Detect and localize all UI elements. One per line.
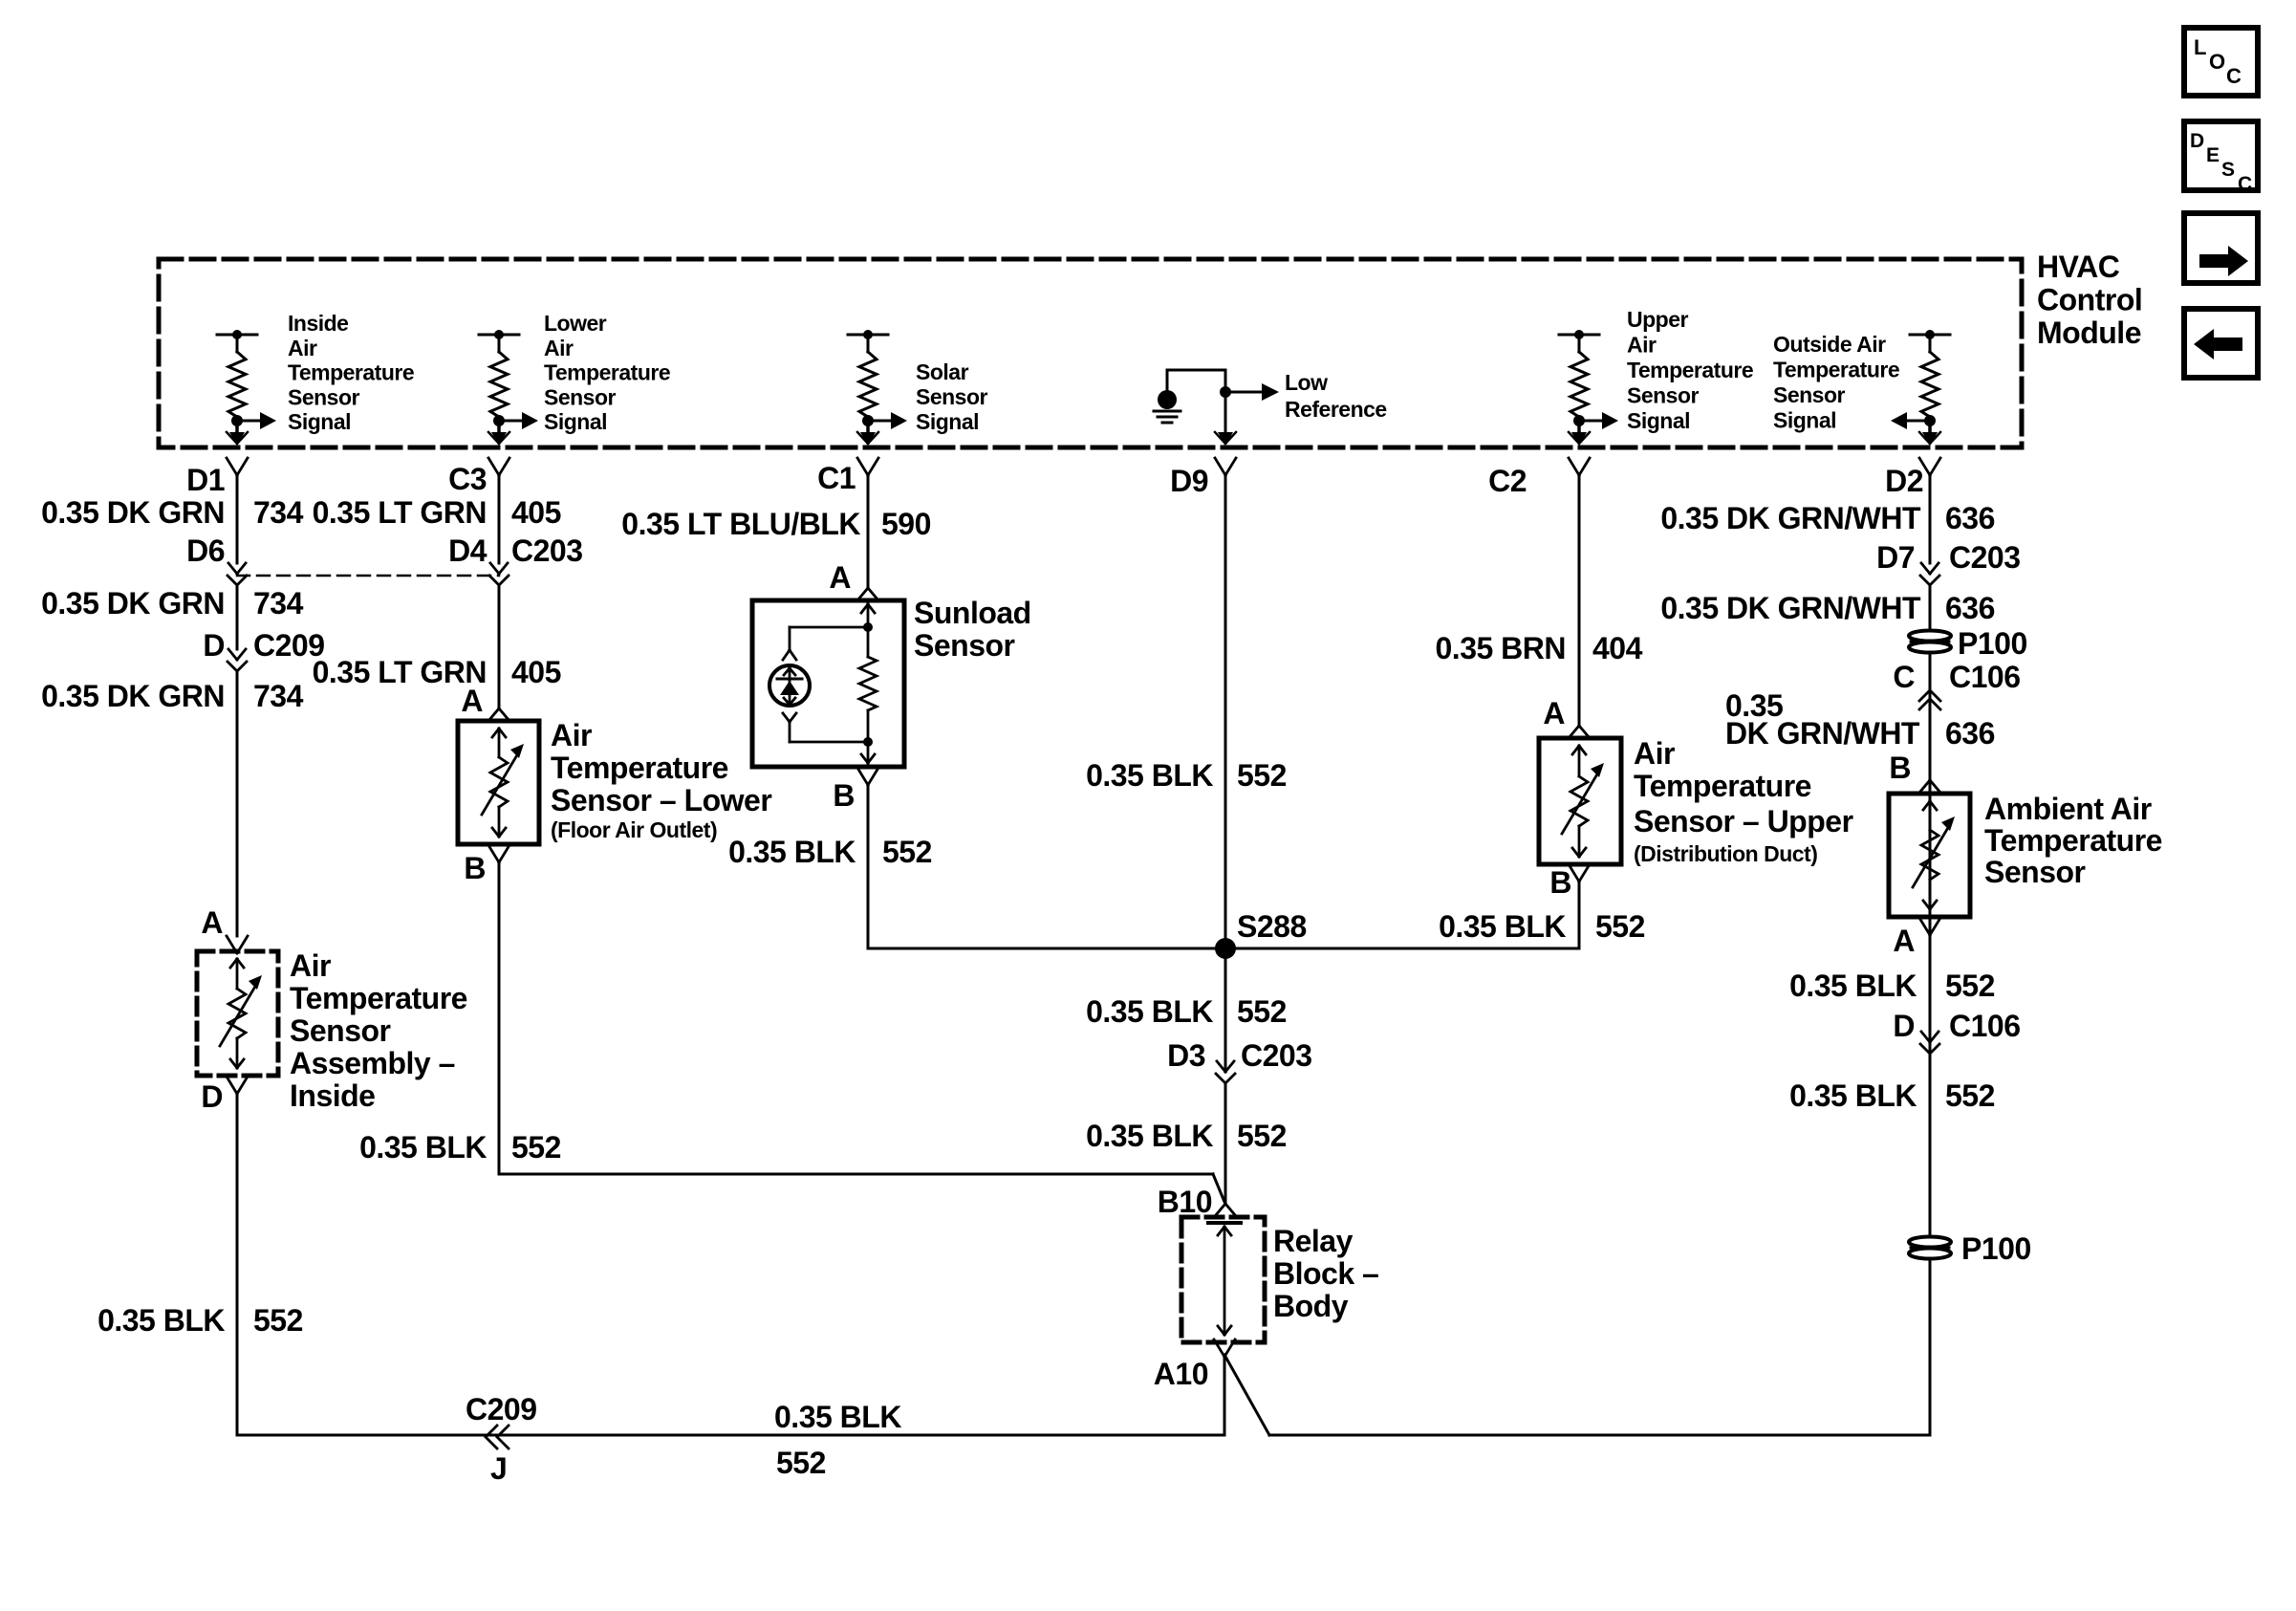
label C209 (bottom wire) bbox=[466, 1392, 537, 1426]
label 0.35 LT GRN 405 (row1 W2) bbox=[313, 495, 561, 530]
pin connector chevron D9 bbox=[1215, 458, 1236, 475]
svg-text:A: A bbox=[461, 684, 483, 718]
svg-text:Inside: Inside bbox=[290, 1078, 375, 1113]
svg-text:C3: C3 bbox=[448, 462, 487, 496]
svg-text:S: S bbox=[2221, 159, 2235, 181]
svg-text:0.35 DK GRN/WHT: 0.35 DK GRN/WHT bbox=[1660, 591, 1921, 625]
dashed connector line C203 between W1 and W2 bbox=[237, 575, 499, 577]
svg-text:D1: D1 bbox=[186, 463, 225, 497]
svg-text:Low: Low bbox=[1285, 370, 1328, 395]
label low reference bbox=[1285, 370, 1387, 422]
svg-text:Block –: Block – bbox=[1273, 1256, 1378, 1291]
svg-text:Signal: Signal bbox=[1773, 408, 1836, 433]
svg-text:Signal: Signal bbox=[1627, 408, 1690, 433]
label D4 C203 bbox=[448, 533, 582, 568]
relay block internal terminal bbox=[1208, 1223, 1241, 1335]
wire S288 horizontal left part bbox=[868, 947, 1225, 950]
label 0.35 BLK 552 (W1 bottom) bbox=[97, 1303, 303, 1338]
wire W1 seg1 bbox=[236, 475, 239, 563]
svg-text:Sunload: Sunload bbox=[914, 596, 1031, 630]
air temperature sensor - upper box bbox=[1539, 738, 1621, 864]
wire W2 horizontal to relay block bbox=[499, 1174, 1224, 1202]
svg-text:0.35 LT BLU/BLK: 0.35 LT BLU/BLK bbox=[621, 507, 860, 541]
thermistor inside assembly box bbox=[220, 959, 262, 1068]
label 0.35 DK GRN 734 (row2 W1) bbox=[41, 586, 303, 620]
svg-text:S288: S288 bbox=[1237, 909, 1307, 944]
label P100 lower bbox=[1961, 1231, 2031, 1266]
air temperature sensor assembly - inside dashed box bbox=[197, 951, 278, 1076]
svg-text:552: 552 bbox=[1237, 758, 1287, 793]
sunload photodiode circle bbox=[769, 665, 810, 706]
wire W1 seg2 bbox=[236, 586, 239, 649]
label D C106 bbox=[1893, 1009, 2020, 1043]
connector chevron below relay block A10 bbox=[1214, 1339, 1235, 1357]
label 0.35 BLK 552 (W4 above S288) bbox=[1086, 758, 1287, 793]
label 0.35 LT GRN 405 (row2 W2) bbox=[313, 655, 561, 689]
relay block - body dashed box bbox=[1181, 1217, 1265, 1342]
svg-text:Reference: Reference bbox=[1285, 397, 1387, 422]
svg-text:B10: B10 bbox=[1158, 1185, 1212, 1219]
svg-text:A: A bbox=[1543, 696, 1565, 730]
svg-text:Sensor: Sensor bbox=[544, 384, 617, 409]
label 0.35 BLK 552 (W6 lower) bbox=[1789, 1078, 1995, 1113]
svg-text:Air: Air bbox=[1634, 736, 1675, 771]
svg-text:C203: C203 bbox=[1241, 1038, 1312, 1073]
svg-text:B: B bbox=[1549, 865, 1571, 900]
grommet P100 upper bbox=[1909, 631, 1951, 653]
svg-text:DK GRN/WHT: DK GRN/WHT bbox=[1725, 716, 1920, 751]
svg-text:Air: Air bbox=[551, 718, 592, 752]
connector C106 pass-through on W6 bbox=[1920, 1032, 1939, 1054]
svg-text:0.35 BLK: 0.35 BLK bbox=[359, 1130, 487, 1165]
svg-text:Sensor – Upper: Sensor – Upper bbox=[1634, 804, 1853, 838]
svg-text:0.35 BLK: 0.35 BLK bbox=[1439, 909, 1566, 944]
label 0.35 BLK 552 (W5) bbox=[1439, 909, 1645, 944]
svg-text:0.35 LT GRN: 0.35 LT GRN bbox=[313, 495, 487, 530]
connector C203 pass-through on W6 bbox=[1920, 563, 1939, 585]
svg-text:552: 552 bbox=[1237, 1119, 1287, 1153]
label 0.35 BLK 552 (W2) bbox=[359, 1130, 561, 1165]
low reference arrow bbox=[1225, 383, 1279, 401]
label D (assembly pin D) bbox=[201, 1079, 223, 1114]
svg-text:Temperature: Temperature bbox=[544, 360, 670, 385]
svg-text:J: J bbox=[490, 1451, 507, 1486]
pin label C1 bbox=[817, 461, 856, 495]
sunload photodiode branch bottom bbox=[783, 713, 868, 742]
pin connector chevron C1 bbox=[857, 458, 878, 475]
svg-text:Ambient Air: Ambient Air bbox=[1984, 792, 2152, 826]
label ambient air temperature sensor bbox=[1984, 792, 2162, 889]
svg-text:552: 552 bbox=[1237, 994, 1287, 1029]
connector chevron into upper sensor bbox=[1569, 726, 1590, 738]
svg-text:B: B bbox=[833, 778, 855, 813]
pin label D2 bbox=[1885, 464, 1923, 498]
svg-text:C106: C106 bbox=[1949, 1009, 2021, 1043]
svg-text:P100: P100 bbox=[1961, 1231, 2031, 1266]
wire W6 seg1 bbox=[1929, 475, 1932, 563]
wire W5 seg2 down bbox=[1578, 881, 1581, 948]
pin connector chevron D2 bbox=[1919, 458, 1940, 475]
svg-text:Signal: Signal bbox=[288, 409, 351, 434]
svg-text:552: 552 bbox=[253, 1303, 303, 1338]
wire S288 horizontal right part bbox=[1225, 947, 1579, 950]
label 0.35 BRN 404 bbox=[1436, 631, 1643, 665]
svg-text:734: 734 bbox=[253, 495, 304, 530]
resistor: inside air temperature sensor signal (W1) bbox=[217, 330, 276, 446]
svg-text:D: D bbox=[1893, 1009, 1915, 1043]
svg-text:Temperature: Temperature bbox=[551, 751, 728, 785]
label D3 C203 bbox=[1167, 1038, 1311, 1073]
svg-text:Air: Air bbox=[290, 948, 331, 983]
resistor: outside air temperature sensor signal (W6) bbox=[1891, 330, 1950, 446]
icon box right-arrow bbox=[2184, 213, 2258, 283]
thermistor ambient sensor bbox=[1913, 801, 1955, 909]
label B (ambient sensor pin B) bbox=[1889, 751, 1911, 785]
svg-text:404: 404 bbox=[1592, 631, 1643, 665]
label air temperature sensor assembly - inside bbox=[290, 948, 467, 1113]
svg-text:O: O bbox=[2209, 50, 2225, 74]
label B10 bbox=[1158, 1185, 1212, 1219]
HVAC control module label bbox=[2037, 250, 2142, 350]
ground symbol (low reference) bbox=[1154, 370, 1180, 423]
svg-text:C106: C106 bbox=[1949, 660, 2021, 694]
svg-text:Body: Body bbox=[1273, 1289, 1349, 1323]
svg-text:Assembly –: Assembly – bbox=[290, 1046, 455, 1080]
thermistor lower sensor bbox=[482, 729, 524, 837]
junction dot low reference bbox=[1220, 386, 1231, 398]
splice S288 dot bbox=[1215, 938, 1236, 959]
label J bbox=[490, 1451, 507, 1486]
svg-text:C: C bbox=[1893, 660, 1915, 694]
svg-text:0.35 BLK: 0.35 BLK bbox=[1086, 994, 1213, 1029]
svg-text:552: 552 bbox=[882, 835, 932, 869]
svg-text:B: B bbox=[1889, 751, 1911, 785]
wire W4 A10 down bbox=[1224, 1355, 1226, 1435]
svg-text:0.35 DK GRN: 0.35 DK GRN bbox=[41, 495, 225, 530]
svg-text:590: 590 bbox=[881, 507, 931, 541]
svg-text:Sensor: Sensor bbox=[1984, 855, 2086, 889]
svg-text:0.35 BLK: 0.35 BLK bbox=[1086, 758, 1213, 793]
svg-text:0.35 BLK: 0.35 BLK bbox=[728, 835, 856, 869]
label S288 bbox=[1237, 909, 1307, 944]
svg-text:552: 552 bbox=[776, 1446, 826, 1480]
label lower air temperature sensor signal bbox=[544, 311, 670, 434]
label solar sensor signal bbox=[916, 359, 988, 434]
wire ground to low-reference node bbox=[1167, 369, 1225, 372]
svg-text:(Floor Air Outlet): (Floor Air Outlet) bbox=[551, 817, 717, 842]
wire W6 seg2 bbox=[1929, 586, 1932, 1042]
svg-text:Temperature: Temperature bbox=[1984, 823, 2162, 858]
svg-text:A: A bbox=[201, 905, 223, 940]
label 0.35 DK GRN 734 (row3 W1) bbox=[41, 679, 303, 713]
label 0.35 DK GRN/WHT 636 (row2) bbox=[1660, 591, 1995, 625]
svg-text:636: 636 bbox=[1945, 501, 1995, 535]
icon box left-arrow bbox=[2184, 309, 2258, 378]
wire W2 seg3 down bbox=[498, 861, 501, 1174]
wire W1 seg3 bbox=[236, 672, 239, 936]
svg-text:C203: C203 bbox=[511, 533, 583, 568]
label D6 bbox=[186, 533, 225, 568]
svg-text:Temperature: Temperature bbox=[290, 981, 467, 1015]
wire W6 seg3 down to bottom bbox=[1929, 934, 1932, 1435]
pin label D9 bbox=[1170, 464, 1208, 498]
svg-text:D3: D3 bbox=[1167, 1038, 1205, 1073]
svg-text:Air: Air bbox=[544, 336, 574, 360]
resistor: lower air temperature sensor signal (W2) bbox=[479, 330, 538, 446]
label P100 upper bbox=[1958, 626, 2027, 661]
svg-text:552: 552 bbox=[1595, 909, 1645, 944]
svg-text:0.35 BRN: 0.35 BRN bbox=[1436, 631, 1567, 665]
label B (upper sensor pin B) bbox=[1549, 865, 1571, 900]
svg-text:734: 734 bbox=[253, 586, 304, 620]
connector C203 pass-through on W2 bbox=[489, 563, 509, 585]
wire W1 seg4 down to bottom bbox=[236, 1093, 239, 1435]
wire low-reference drop bbox=[1215, 370, 1236, 446]
svg-text:0.35 DK GRN: 0.35 DK GRN bbox=[41, 679, 225, 713]
svg-text:Solar: Solar bbox=[916, 359, 969, 384]
label air temperature sensor - lower bbox=[551, 718, 771, 842]
label inside air temperature sensor signal bbox=[288, 311, 414, 434]
svg-text:Signal: Signal bbox=[916, 409, 979, 434]
svg-text:D7: D7 bbox=[1876, 540, 1915, 575]
svg-text:D: D bbox=[2190, 130, 2204, 152]
svg-text:0.35 BLK: 0.35 BLK bbox=[774, 1400, 901, 1434]
connector chevron below assembly bbox=[227, 1077, 248, 1094]
svg-text:Module: Module bbox=[2037, 316, 2141, 350]
svg-text:C209: C209 bbox=[466, 1392, 537, 1426]
svg-text:Air: Air bbox=[288, 336, 317, 360]
label 0.35 DK GRN/WHT 636 (row1) bbox=[1660, 501, 1995, 535]
label A (ambient sensor pin A) bbox=[1893, 924, 1915, 958]
svg-text:Temperature: Temperature bbox=[1773, 358, 1899, 382]
connector chevron below ambient sensor bbox=[1919, 918, 1940, 935]
thermistor upper sensor bbox=[1562, 746, 1604, 857]
svg-text:Sensor: Sensor bbox=[288, 384, 360, 409]
wire W3 seg1 bbox=[867, 475, 870, 588]
connector C209 pass-through on W1 bbox=[227, 649, 247, 671]
connector chevron into assembly bbox=[227, 936, 248, 953]
label B (sunload pin B) bbox=[833, 778, 855, 813]
svg-text:636: 636 bbox=[1945, 591, 1995, 625]
svg-text:(Distribution Duct): (Distribution Duct) bbox=[1634, 841, 1817, 866]
svg-text:Temperature: Temperature bbox=[1627, 358, 1753, 382]
wire W4 seg1 bbox=[1224, 475, 1227, 1072]
svg-text:D2: D2 bbox=[1885, 464, 1923, 498]
wire W5 seg1 bbox=[1578, 475, 1581, 726]
svg-text:0.35 BLK: 0.35 BLK bbox=[1789, 969, 1917, 1003]
svg-text:L: L bbox=[2194, 35, 2206, 59]
resistor: solar sensor signal (W3) bbox=[848, 330, 907, 446]
pin connector chevron C3 bbox=[488, 458, 509, 475]
svg-text:D4: D4 bbox=[448, 533, 487, 568]
connector chevron into ambient sensor bbox=[1919, 780, 1940, 793]
label D7 C203 bbox=[1876, 540, 2020, 575]
pin connector chevron C2 bbox=[1569, 458, 1590, 475]
svg-text:Sensor: Sensor bbox=[1627, 383, 1700, 408]
connector chevron below upper sensor bbox=[1569, 864, 1590, 882]
svg-text:Sensor – Lower: Sensor – Lower bbox=[551, 783, 771, 817]
label relay block - body bbox=[1273, 1224, 1378, 1323]
svg-text:D9: D9 bbox=[1170, 464, 1208, 498]
bottom wire right segment bbox=[1269, 1434, 1930, 1437]
label 0.35 BLK (bottom wire) bbox=[774, 1400, 901, 1434]
icon box DESC bbox=[2184, 121, 2258, 195]
label A10 bbox=[1154, 1357, 1208, 1391]
svg-text:0.35 BLK: 0.35 BLK bbox=[1789, 1078, 1917, 1113]
svg-text:Sensor: Sensor bbox=[914, 628, 1015, 663]
grommet P100 lower bbox=[1909, 1237, 1951, 1259]
label upper air temperature sensor signal bbox=[1627, 307, 1753, 433]
icon box LOC bbox=[2184, 28, 2258, 96]
svg-text:552: 552 bbox=[511, 1130, 561, 1165]
sunload junction dot top bbox=[863, 622, 873, 632]
svg-text:A10: A10 bbox=[1154, 1357, 1208, 1391]
svg-text:Signal: Signal bbox=[544, 409, 607, 434]
svg-text:Control: Control bbox=[2037, 283, 2142, 317]
svg-text:Temperature: Temperature bbox=[288, 360, 414, 385]
sunload resistor bbox=[859, 627, 877, 742]
svg-text:D: D bbox=[203, 628, 225, 663]
svg-text:405: 405 bbox=[511, 495, 561, 530]
svg-text:734: 734 bbox=[253, 679, 304, 713]
svg-text:Air: Air bbox=[1627, 333, 1657, 358]
sunload junction dot bottom bbox=[863, 737, 873, 747]
svg-text:P100: P100 bbox=[1958, 626, 2027, 661]
bottom wire left segment bbox=[237, 1434, 1224, 1437]
pin label C3 bbox=[448, 462, 487, 496]
connector C106 pass-through up on W6 bbox=[1919, 690, 1940, 709]
svg-text:C: C bbox=[2238, 173, 2252, 195]
wire W2 seg2 bbox=[498, 586, 501, 708]
sunload sensor box bbox=[752, 600, 904, 767]
pin connector chevron D1 bbox=[227, 458, 248, 475]
label 0.35 / DK GRN/WHT 636 two-line bbox=[1725, 688, 1995, 751]
wire W3 seg2 down to S288 line bbox=[867, 784, 870, 948]
svg-text:405: 405 bbox=[511, 655, 561, 689]
connector chevron into relay block B10 bbox=[1215, 1204, 1236, 1216]
label A (inside assembly pin A) bbox=[201, 905, 223, 940]
pin label C2 bbox=[1488, 464, 1527, 498]
svg-text:Sensor: Sensor bbox=[290, 1013, 391, 1048]
label A (sunload pin A) bbox=[829, 560, 851, 595]
svg-text:C2: C2 bbox=[1488, 464, 1527, 498]
connector C203 pass-through on W4 bbox=[1216, 1061, 1235, 1083]
svg-text:D6: D6 bbox=[186, 533, 225, 568]
air temperature sensor - lower box bbox=[458, 721, 539, 844]
label 0.35 BLK 552 (W6 upper) bbox=[1789, 969, 1995, 1003]
svg-text:A: A bbox=[1893, 924, 1915, 958]
label sunload sensor bbox=[914, 596, 1031, 663]
label A (lower sensor pin A) bbox=[461, 684, 483, 718]
svg-text:Sensor: Sensor bbox=[1773, 382, 1846, 407]
sunload internal entry arrow bbox=[861, 600, 875, 627]
svg-text:Lower: Lower bbox=[544, 311, 607, 336]
label outside air temperature sensor signal bbox=[1773, 332, 1899, 433]
connector chevron below lower sensor bbox=[488, 845, 509, 862]
svg-text:E: E bbox=[2206, 144, 2220, 166]
label 0.35 BLK 552 (W3) bbox=[728, 835, 932, 869]
connector chevron below sunload bbox=[857, 768, 878, 785]
svg-text:D: D bbox=[201, 1079, 223, 1114]
sunload internal exit arrow bbox=[861, 742, 875, 763]
svg-text:552: 552 bbox=[1945, 969, 1995, 1003]
label A (upper sensor pin A) bbox=[1543, 696, 1565, 730]
connector chevron into lower sensor bbox=[488, 708, 509, 721]
sunload photodiode internals bbox=[777, 668, 802, 705]
label 552 (bottom wire) bbox=[776, 1446, 826, 1480]
wire W4 seg2 bbox=[1224, 1084, 1227, 1204]
svg-text:0.35 BLK: 0.35 BLK bbox=[97, 1303, 225, 1338]
label air temperature sensor - upper bbox=[1634, 736, 1853, 866]
svg-text:0.35 DK GRN/WHT: 0.35 DK GRN/WHT bbox=[1660, 501, 1921, 535]
svg-text:C: C bbox=[2226, 64, 2242, 88]
label 0.35 LT BLU/BLK 590 bbox=[621, 507, 931, 541]
svg-text:0.35 BLK: 0.35 BLK bbox=[1086, 1119, 1213, 1153]
HVAC control module dashed box bbox=[159, 259, 2022, 447]
sunload photodiode branch top bbox=[783, 627, 868, 660]
label 0.35 BLK 552 (W4 above B10) bbox=[1086, 1119, 1287, 1153]
pin label D1 bbox=[186, 463, 225, 497]
label 0.35 DK GRN 734 (row1 W1) bbox=[41, 495, 303, 530]
svg-text:Upper: Upper bbox=[1627, 307, 1689, 332]
connector chevron into sunload bbox=[857, 588, 878, 600]
svg-text:A: A bbox=[829, 560, 851, 595]
wire A10 diagonal branch bbox=[1224, 1355, 1269, 1435]
svg-text:Temperature: Temperature bbox=[1634, 769, 1811, 803]
svg-text:636: 636 bbox=[1945, 716, 1995, 751]
label C C106 bbox=[1893, 660, 2020, 694]
label B (lower sensor pin B) bbox=[464, 851, 486, 885]
svg-text:B: B bbox=[464, 851, 486, 885]
label 0.35 BLK 552 (W4 below S288) bbox=[1086, 994, 1287, 1029]
svg-text:0.35 DK GRN: 0.35 DK GRN bbox=[41, 586, 225, 620]
svg-text:HVAC: HVAC bbox=[2037, 250, 2120, 284]
svg-text:C1: C1 bbox=[817, 461, 856, 495]
connector C203 pass-through on W1 bbox=[227, 563, 247, 585]
ambient air temperature sensor box bbox=[1889, 794, 1970, 917]
wire W2 seg1 bbox=[498, 475, 501, 563]
svg-text:C203: C203 bbox=[1949, 540, 2021, 575]
svg-text:Sensor: Sensor bbox=[916, 384, 988, 409]
svg-text:Relay: Relay bbox=[1273, 1224, 1354, 1258]
connector C209 double chevron on bottom wire bbox=[486, 1426, 509, 1448]
svg-text:Outside Air: Outside Air bbox=[1773, 332, 1886, 357]
svg-text:552: 552 bbox=[1945, 1078, 1995, 1113]
svg-text:Inside: Inside bbox=[288, 311, 348, 336]
label D C209 bbox=[203, 628, 324, 663]
resistor: upper air temperature sensor signal (W5) bbox=[1559, 330, 1618, 446]
